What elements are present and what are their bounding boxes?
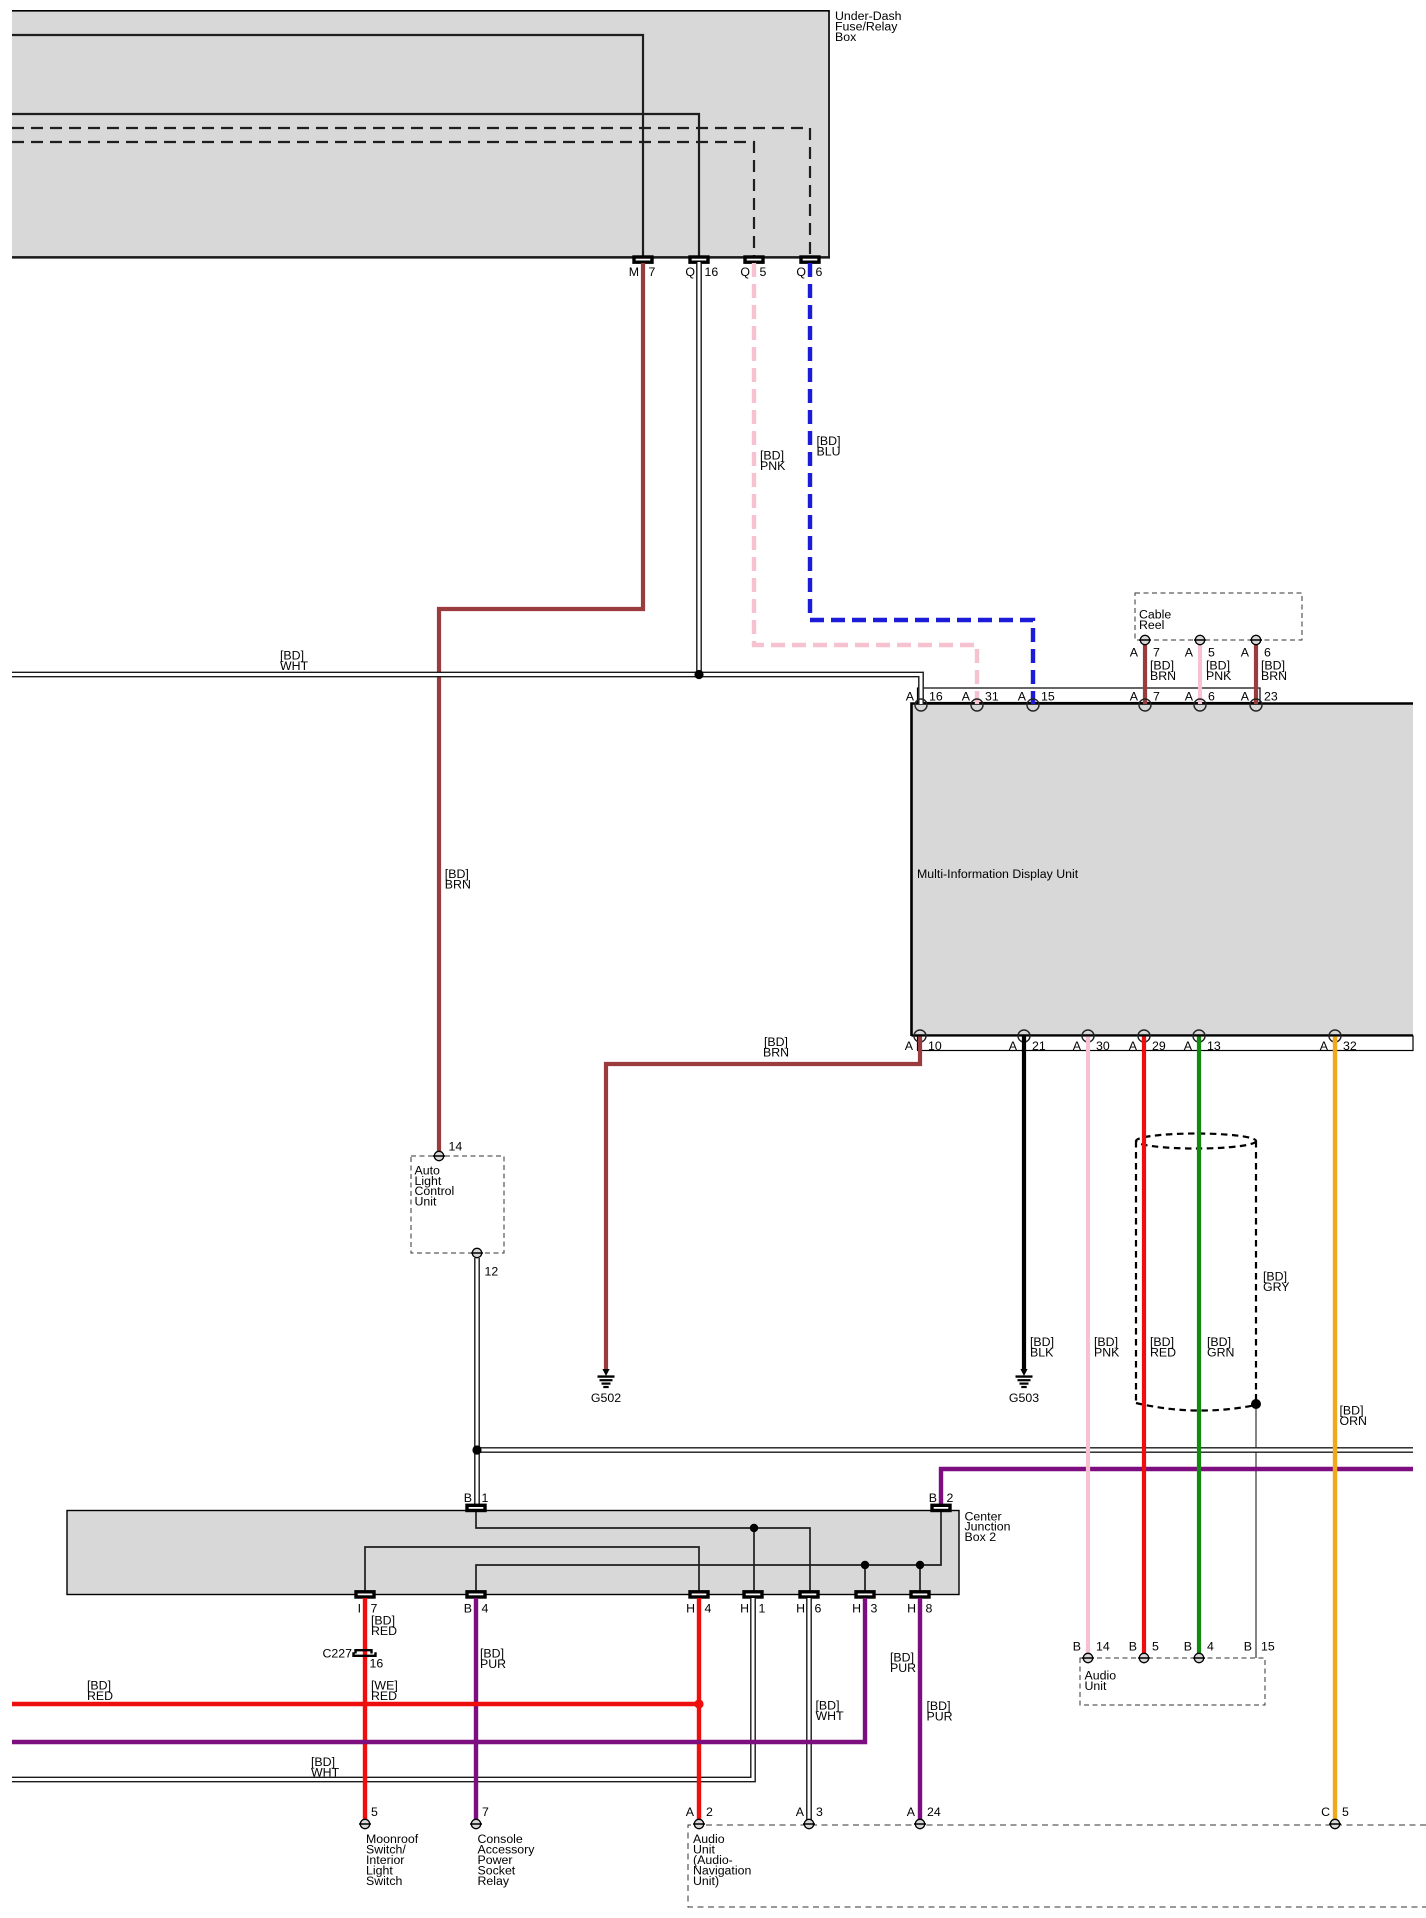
wire MID A29 [BD] RED to audio unit B5: [1142, 1037, 1146, 1656]
svg-text:BRN: BRN: [1261, 669, 1287, 683]
label [BD] WHT (bottom rail): [311, 1755, 340, 1779]
svg-text:RED: RED: [1150, 1345, 1176, 1359]
svg-text:Unit: Unit: [415, 1195, 438, 1209]
svg-text:ORN: ORN: [1340, 1414, 1367, 1428]
svg-text:RED: RED: [371, 1624, 397, 1638]
svg-text:B: B: [1244, 1640, 1252, 1654]
label [BD] RED (A29 wire): [1150, 1335, 1176, 1359]
svg-text:PNK: PNK: [1094, 1345, 1120, 1359]
cable reel terminal A5: [1185, 635, 1215, 659]
svg-text:A: A: [1130, 690, 1139, 704]
svg-text:6: 6: [1208, 690, 1215, 704]
wire cable reel A5 [BD] PNK to MID A6: [1198, 644, 1202, 704]
svg-text:31: 31: [985, 690, 999, 704]
svg-text:H: H: [796, 1602, 805, 1616]
junction dot Q16/WHT: [694, 670, 703, 679]
wire H3 [BD] PUR down then left rail to edge: [12, 1598, 865, 1742]
svg-text:15: 15: [1261, 1640, 1275, 1654]
audio unit dashed box: [1080, 1658, 1265, 1705]
audio unit terminal B14: [1073, 1640, 1110, 1663]
MID pin A32: [1320, 1030, 1357, 1053]
svg-text:5: 5: [760, 265, 767, 279]
wire [BD] RED horizontal rail from left edge: [12, 1702, 699, 1706]
label [BD] PNK (A30 wire): [1094, 1335, 1120, 1359]
label [BD] ORN: [1340, 1404, 1367, 1428]
svg-text:C: C: [1321, 1805, 1330, 1819]
svg-text:BRN: BRN: [445, 877, 471, 891]
svg-text:B: B: [929, 1491, 937, 1505]
wire cable reel A6 [BD] BRN to MID A23: [1254, 644, 1258, 704]
audio-navigation unit label: [693, 1832, 751, 1888]
label [BD] BRN (cable reel A6 wire): [1261, 659, 1287, 683]
label [BD] BRN (cable reel A7 wire): [1150, 659, 1176, 683]
audio unit terminal B4: [1184, 1640, 1214, 1663]
label [BD] PNK (cable reel A5 wire): [1206, 659, 1232, 683]
svg-text:3: 3: [816, 1805, 823, 1819]
cable reel terminal A6: [1241, 635, 1271, 659]
svg-text:A: A: [1185, 646, 1194, 660]
MID pin A16: [906, 690, 943, 712]
svg-text:H: H: [740, 1602, 749, 1616]
svg-text:A: A: [1320, 1039, 1329, 1053]
under-dash fuse/relay box label: [835, 9, 902, 44]
label [BD] RED (I7 wire): [371, 1614, 397, 1638]
svg-text:A: A: [1009, 1039, 1018, 1053]
svg-text:RED: RED: [371, 1689, 397, 1703]
svg-text:5: 5: [1342, 1805, 1349, 1819]
wire [BD] WHT horizontal to MID A16: [12, 675, 921, 705]
label [BD] BLU (dashed blue wire): [817, 434, 841, 458]
label [WE] RED (I7 wire below C227): [371, 1679, 398, 1703]
wire B4 [BD] PUR down to console relay pin 7: [474, 1598, 478, 1822]
junction dot internal H3: [861, 1561, 869, 1569]
ground G503: [1009, 1369, 1039, 1405]
MID bottom connector row: [918, 1036, 1414, 1051]
svg-text:7: 7: [1153, 646, 1160, 660]
svg-text:PNK: PNK: [1206, 669, 1232, 683]
svg-text:13: 13: [1207, 1039, 1221, 1053]
svg-text:7: 7: [482, 1805, 489, 1819]
center junction box 2: [67, 1511, 959, 1595]
svg-text:21: 21: [1032, 1039, 1046, 1053]
CJB2 internal link branch to H8: [919, 1565, 921, 1591]
svg-text:A: A: [1018, 690, 1027, 704]
shield braid drain line to Audio Unit B15: [1255, 1403, 1257, 1658]
svg-text:8: 8: [926, 1602, 933, 1616]
svg-text:15: 15: [1041, 690, 1055, 704]
wire I7 [BD]/[WE] RED down to moonroof switch pin 5: [363, 1598, 367, 1822]
CJB2 pin H4: [686, 1592, 711, 1616]
under-dash fuse/relay box U-D: [12, 10, 830, 258]
ALCU label: [415, 1163, 455, 1208]
svg-text:B: B: [464, 1602, 472, 1616]
white double wire: ALCU pin 12 down to junction and CJB2 B1: [474, 1258, 480, 1506]
wire Q5 [BD] PNK dashed to MID A31: [754, 263, 977, 704]
console accessory power socket relay label: [478, 1832, 536, 1888]
label [BD] WHT (H6 wire): [816, 1699, 845, 1723]
svg-text:A: A: [907, 1805, 916, 1819]
svg-text:H: H: [852, 1602, 861, 1616]
MID pin A13: [1184, 1030, 1221, 1053]
multi-information display unit box: [911, 703, 1413, 1036]
svg-text:I: I: [358, 1602, 361, 1616]
audio-navigation terminal A3: [796, 1805, 823, 1829]
svg-text:Switch: Switch: [366, 1874, 402, 1888]
svg-text:BRN: BRN: [1150, 669, 1176, 683]
MID top connector row: [918, 688, 1261, 703]
wire MID A10 [BD] BRN to ground G502: [606, 1037, 920, 1371]
wire: fuse box internal feed to pin Q16: [12, 114, 699, 256]
svg-text:16: 16: [705, 265, 719, 279]
CJB2 pin B1: [464, 1491, 489, 1511]
junction dot internal B1/H1: [750, 1524, 758, 1532]
CJB2 internal link I7 to H4: [365, 1547, 699, 1591]
wire Q6 [BD] BLU dashed to MID A15: [810, 263, 1033, 704]
svg-text:A: A: [796, 1805, 805, 1819]
svg-text:GRN: GRN: [1207, 1345, 1234, 1359]
svg-text:C227: C227: [322, 1647, 352, 1661]
svg-text:29: 29: [1152, 1039, 1166, 1053]
svg-text:32: 32: [1343, 1039, 1357, 1053]
svg-text:24: 24: [927, 1805, 941, 1819]
MID pin A31: [962, 690, 999, 712]
svg-text:Box 2: Box 2: [965, 1530, 997, 1544]
ground G502: [591, 1369, 621, 1405]
svg-text:2: 2: [947, 1491, 954, 1505]
svg-text:7: 7: [649, 265, 656, 279]
wire MID A21 [BD] BLK to ground G503: [1022, 1037, 1026, 1371]
audio unit label: [1085, 1669, 1117, 1693]
svg-text:4: 4: [1207, 1640, 1214, 1654]
CJB2 pin H8: [907, 1592, 932, 1616]
CJB2 internal link B4 to B2: [476, 1512, 941, 1591]
svg-text:5: 5: [1208, 646, 1215, 660]
svg-text:H: H: [907, 1602, 916, 1616]
inline connector C227: [322, 1647, 383, 1671]
white double wire: horizontal branch to right edge: [477, 1447, 1413, 1453]
svg-text:Box: Box: [835, 30, 857, 44]
svg-text:4: 4: [705, 1602, 712, 1616]
CJB2 pin B2: [929, 1491, 954, 1511]
label [BD] RED (left rail): [87, 1679, 113, 1703]
svg-text:A: A: [962, 690, 971, 704]
connector pin Q6: [796, 257, 822, 279]
cable reel label: [1139, 608, 1171, 632]
svg-text:Q: Q: [796, 265, 806, 279]
label [BD] GRN (A13 wire): [1207, 1335, 1234, 1359]
svg-text:GRY: GRY: [1263, 1280, 1290, 1294]
label [BD] BRN (long brown wire): [445, 867, 471, 891]
svg-text:PUR: PUR: [927, 1709, 953, 1723]
MID pin A30: [1073, 1030, 1110, 1053]
svg-text:BLK: BLK: [1030, 1345, 1054, 1359]
svg-text:10: 10: [928, 1039, 942, 1053]
svg-text:WHT: WHT: [311, 1765, 340, 1779]
audio-navigation terminal A24: [907, 1805, 941, 1829]
svg-text:G503: G503: [1009, 1391, 1039, 1405]
svg-text:23: 23: [1264, 690, 1278, 704]
CJB2 internal link B1 to H1/H6: [476, 1512, 810, 1591]
CJB2 pin H1: [740, 1592, 765, 1616]
audio unit terminal B5: [1129, 1640, 1159, 1663]
audio-navigation terminal C5: [1321, 1805, 1349, 1829]
label [BD] GRY: [1263, 1270, 1290, 1294]
connector pin Q5: [740, 257, 766, 279]
label [BD] PUR (B4 wire): [480, 1647, 506, 1671]
audio unit pin B15 label: [1244, 1640, 1275, 1654]
svg-text:WHT: WHT: [816, 1709, 845, 1723]
svg-text:A: A: [1241, 690, 1250, 704]
wire MID A13 [BD] GRN to audio unit B4: [1197, 1037, 1201, 1656]
svg-text:A: A: [905, 1039, 914, 1053]
svg-text:A: A: [1241, 646, 1250, 660]
MID pin A10: [905, 1030, 942, 1053]
svg-text:B: B: [1184, 1640, 1192, 1654]
label [BD] PNK (dashed pink wire): [760, 449, 786, 473]
junction dot shield to drain: [1251, 1399, 1261, 1409]
wire Q16 white double line down to junction: [696, 262, 702, 675]
svg-text:A: A: [1130, 646, 1139, 660]
svg-text:A: A: [686, 1805, 695, 1819]
CJB2 pin I7: [356, 1592, 378, 1616]
svg-text:WHT: WHT: [280, 659, 309, 673]
ALCU terminal 12: [471, 1248, 498, 1278]
audio-navigation unit dashed box: [688, 1825, 1426, 1907]
svg-text:B: B: [464, 1491, 472, 1505]
svg-text:16: 16: [929, 690, 943, 704]
label [BD] BRN (A10 ground wire): [763, 1035, 789, 1059]
svg-text:PUR: PUR: [890, 1661, 916, 1675]
svg-text:BRN: BRN: [763, 1045, 789, 1059]
junction dot internal H8: [916, 1561, 924, 1569]
MID pin A21: [1009, 1030, 1046, 1053]
CJB2 label: [965, 1509, 1011, 1544]
CJB2 pin B4: [464, 1592, 489, 1616]
svg-text:A: A: [1073, 1039, 1082, 1053]
svg-text:1: 1: [482, 1491, 489, 1505]
svg-text:1: 1: [759, 1602, 766, 1616]
cable reel dashed box: [1135, 593, 1302, 640]
svg-text:B: B: [1073, 1640, 1081, 1654]
svg-text:A: A: [906, 690, 915, 704]
svg-text:A: A: [1185, 690, 1194, 704]
svg-text:PNK: PNK: [760, 459, 786, 473]
svg-text:2: 2: [706, 1805, 713, 1819]
svg-text:3: 3: [871, 1602, 878, 1616]
label [BD] PUR (H8 wire): [927, 1699, 953, 1723]
MID pin A15: [1018, 690, 1055, 712]
wire cable reel A7 [BD] BRN to MID A7: [1143, 644, 1147, 704]
svg-text:Unit): Unit): [693, 1874, 719, 1888]
wire: fuse box internal dashed feed to pin Q6: [12, 128, 810, 256]
MID pin A7: [1130, 690, 1160, 712]
wire H1 white double down then left rail [BD] WHT: [12, 1598, 753, 1780]
console accessory power socket relay terminal 7: [470, 1805, 489, 1829]
svg-text:PUR: PUR: [480, 1657, 506, 1671]
MID pin A6: [1185, 690, 1215, 712]
svg-text:12: 12: [485, 1265, 499, 1279]
svg-text:B: B: [1129, 1640, 1137, 1654]
svg-text:6: 6: [1264, 646, 1271, 660]
wire H4 [BD] RED down to audio-navigation unit A2: [697, 1598, 701, 1822]
moonroof switch terminal 5: [359, 1805, 378, 1829]
auto light control unit dashed box: [411, 1156, 504, 1253]
svg-text:Reel: Reel: [1139, 618, 1164, 632]
wire [BD] PUR from CJB2 B2 up and right to edge: [941, 1469, 1413, 1506]
junction dot WHT branch: [472, 1445, 481, 1454]
svg-text:BLU: BLU: [817, 444, 841, 458]
CJB2 pin H3: [852, 1592, 877, 1616]
svg-text:Unit: Unit: [1085, 1679, 1108, 1693]
svg-text:H: H: [686, 1602, 695, 1616]
svg-text:Relay: Relay: [478, 1874, 510, 1888]
CJB2 internal link branch to H3: [864, 1565, 866, 1591]
connector pin Q16: [685, 257, 718, 279]
moonroof switch label: [366, 1832, 419, 1888]
label [BD] WHT (horizontal white wire): [280, 649, 309, 673]
connector pin M7: [629, 257, 656, 279]
wire H6 white double down to audio-navigation unit A3 [BD] WHT: [806, 1598, 812, 1821]
wire MID A30 [BD] PNK to audio unit B14: [1086, 1037, 1090, 1656]
label [BD] PUR (H3 wire): [890, 1651, 916, 1675]
svg-text:A: A: [1129, 1039, 1138, 1053]
shield cylinder [BD] GRY around RED/GRN wires: [1136, 1134, 1256, 1411]
wire: fuse box internal dashed feed to pin Q5: [12, 142, 754, 256]
svg-text:A: A: [1184, 1039, 1193, 1053]
svg-text:6: 6: [816, 265, 823, 279]
label [BD] BLK: [1030, 1335, 1054, 1359]
wire H8 [BD] PUR down to audio-navigation unit A24: [918, 1598, 922, 1822]
cable reel terminal A7: [1130, 635, 1160, 659]
CJB2 pin H6: [796, 1592, 821, 1616]
junction dot RED rail / H4: [694, 1699, 703, 1708]
svg-text:16: 16: [370, 1656, 384, 1670]
svg-text:6: 6: [815, 1602, 822, 1616]
MID pin A29: [1129, 1030, 1166, 1053]
MID pin A23: [1241, 690, 1278, 712]
wire MID A32 [BD] ORN to audio-navigation unit C5: [1333, 1037, 1337, 1823]
audio-navigation terminal A2: [686, 1805, 713, 1829]
svg-text:Multi-Information Display Unit: Multi-Information Display Unit: [917, 867, 1079, 881]
wire: fuse box internal feed to pin M7: [12, 35, 643, 256]
ALCU terminal 14: [433, 1140, 462, 1161]
svg-text:G502: G502: [591, 1391, 621, 1405]
svg-text:M: M: [629, 265, 639, 279]
svg-text:4: 4: [482, 1602, 489, 1616]
CJB2 internal link branch to H1: [753, 1528, 755, 1591]
svg-text:RED: RED: [87, 1689, 113, 1703]
wire M7 [BD] BRN down-left-down to Auto Light Control Unit pin 14: [439, 263, 643, 1152]
svg-text:30: 30: [1096, 1039, 1110, 1053]
svg-text:5: 5: [371, 1805, 378, 1819]
svg-text:14: 14: [449, 1140, 463, 1154]
svg-text:7: 7: [1153, 690, 1160, 704]
svg-text:Q: Q: [685, 265, 695, 279]
svg-text:5: 5: [1152, 1640, 1159, 1654]
svg-text:14: 14: [1096, 1640, 1110, 1654]
svg-text:Q: Q: [740, 265, 750, 279]
